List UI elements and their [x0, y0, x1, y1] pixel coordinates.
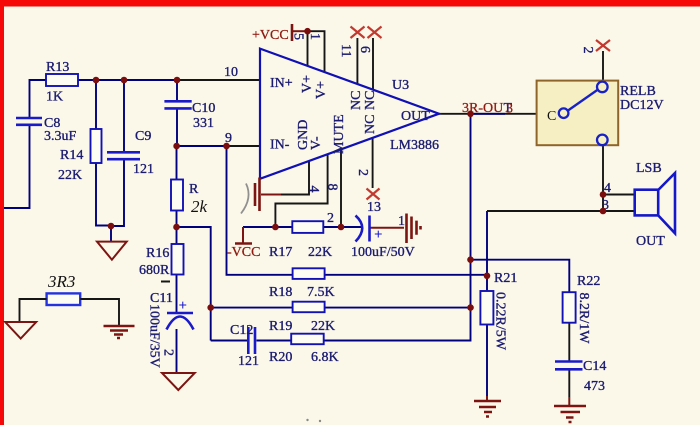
wire GND pin 4	[281, 161, 309, 195]
wire +VCC to pins	[293, 30, 308, 32]
svg-text:2: 2	[327, 211, 334, 226]
wire R16 C11 column	[176, 227, 178, 373]
wire relay top contact	[602, 51, 604, 82]
no-connect X pin 6	[368, 27, 382, 39]
resistor R13	[46, 60, 78, 105]
wire R21 column	[486, 211, 488, 396]
svg-text:R18: R18	[269, 285, 292, 300]
ground triangle C9 R14	[97, 242, 127, 260]
svg-text:2: 2	[161, 349, 176, 356]
ground triangle C11	[162, 373, 195, 390]
svg-text:NC: NC	[363, 91, 378, 110]
svg-text:0.22R/5W: 0.22R/5W	[493, 292, 508, 351]
relay RELB	[537, 81, 664, 146]
svg-text:473: 473	[584, 379, 605, 394]
svg-text:1: 1	[398, 214, 405, 229]
wire cap C13 to ground	[370, 227, 405, 229]
svg-text:U3: U3	[392, 78, 409, 93]
wire R14 column	[96, 80, 111, 226]
svg-text:+: +	[374, 227, 383, 243]
svg-text:LM3886: LM3886	[390, 138, 439, 153]
power +VCC	[252, 24, 292, 43]
wire NC pins	[357, 38, 373, 90]
svg-text:C12: C12	[230, 323, 253, 338]
no-connect X pin 11	[351, 27, 365, 39]
wire C10 column	[176, 80, 178, 146]
earth ground 3R3	[104, 326, 135, 338]
svg-text:11: 11	[338, 44, 353, 57]
wire -VCC stem	[242, 227, 244, 244]
capacitor C12	[230, 323, 259, 369]
svg-text:R20: R20	[269, 350, 292, 365]
svg-text:100uF/50V: 100uF/50V	[351, 245, 415, 260]
wire pin 9	[227, 145, 261, 147]
svg-text:22K: 22K	[58, 168, 82, 183]
svg-text:2: 2	[580, 47, 595, 54]
power -VCC	[227, 244, 260, 261]
svg-text:NC: NC	[349, 91, 364, 110]
wire IN- feedback to R18	[227, 146, 488, 275]
svg-text:V-: V-	[309, 136, 324, 150]
wire op-amp output	[439, 113, 537, 115]
wire output feedback column	[470, 114, 472, 342]
wire 3R3 left	[20, 299, 47, 322]
artifact dots	[306, 419, 308, 421]
resistor R19	[269, 302, 335, 334]
capacitor C13 100uF/50V	[351, 214, 415, 260]
wire pin 13	[372, 138, 374, 188]
svg-text:V+: V+	[300, 75, 315, 93]
svg-text:3: 3	[506, 102, 513, 117]
svg-text:R13: R13	[46, 60, 69, 75]
wire R22 branch	[471, 260, 570, 292]
svg-text:R: R	[189, 182, 199, 197]
ground sideways C13	[407, 214, 421, 244]
svg-text:C10: C10	[192, 101, 215, 116]
svg-text:10: 10	[224, 65, 238, 80]
resistor R20	[269, 334, 339, 365]
svg-text:IN+: IN+	[270, 76, 293, 91]
wire R22 to C14	[568, 323, 570, 397]
wire relay bottom contact	[602, 145, 604, 211]
svg-text:4: 4	[306, 186, 321, 193]
wire C9 column	[111, 80, 124, 242]
svg-text:R21: R21	[494, 271, 517, 286]
border left	[0, 0, 4, 425]
svg-text:R16: R16	[146, 246, 169, 261]
svg-text:+: +	[179, 298, 188, 314]
svg-text:DC12V: DC12V	[620, 98, 664, 113]
svg-text:OUT: OUT	[401, 109, 430, 124]
svg-text:NC: NC	[363, 115, 378, 134]
wire speaker pin4	[603, 194, 635, 196]
svg-text:8: 8	[325, 184, 340, 191]
speaker LSB	[635, 161, 675, 249]
ground triangle 3R3	[5, 322, 36, 339]
label 3R-OUT	[462, 101, 513, 117]
capacitor C9	[107, 129, 154, 177]
svg-text:OUT: OUT	[636, 234, 665, 249]
svg-text:100uF/35V: 100uF/35V	[147, 304, 162, 368]
resistor R18	[269, 268, 335, 300]
resistor 3R3	[47, 272, 81, 305]
border top	[0, 0, 700, 7]
svg-text:RELB: RELB	[620, 84, 656, 99]
svg-text:LSB: LSB	[636, 161, 662, 176]
svg-text:121: 121	[133, 162, 154, 177]
resistor R22	[563, 274, 601, 344]
svg-text:8.2R/1W: 8.2R/1W	[576, 293, 591, 345]
svg-text:1: 1	[307, 33, 322, 40]
svg-text:R14: R14	[60, 148, 83, 163]
no-connect X pin 13	[367, 189, 380, 200]
svg-text:6.8K: 6.8K	[311, 350, 339, 365]
svg-text:-VCC: -VCC	[227, 245, 260, 260]
wire R19 row	[211, 307, 471, 309]
svg-text:C14: C14	[583, 359, 606, 374]
svg-text:C: C	[547, 109, 556, 124]
capacitor C14	[555, 359, 606, 394]
svg-text:R19: R19	[269, 319, 292, 334]
resistor R21	[480, 271, 517, 351]
capacitor C11	[147, 282, 194, 368]
earth ground C14	[554, 406, 586, 422]
wire 3R3 right	[80, 299, 119, 326]
svg-text:680R: 680R	[139, 263, 170, 278]
svg-text:1K: 1K	[46, 90, 63, 105]
svg-text:7.5K: 7.5K	[307, 285, 335, 300]
wire R17 row	[243, 226, 361, 228]
wire R 2k column	[176, 146, 178, 227]
wire node to R19/R20 column	[177, 227, 211, 341]
wire pin 10	[177, 79, 260, 81]
wire pin at node 2	[340, 149, 342, 227]
resistor R14	[58, 129, 102, 183]
svg-text:IN-: IN-	[270, 138, 290, 153]
capacitor C10	[164, 101, 215, 131]
svg-text:22K: 22K	[308, 245, 332, 260]
wire input top rail	[4, 80, 177, 208]
capacitor C8	[16, 116, 77, 144]
svg-text:22K: 22K	[311, 319, 335, 334]
svg-text:+VCC: +VCC	[252, 28, 289, 43]
svg-text:C9: C9	[135, 129, 151, 144]
earth ground R21	[474, 401, 501, 417]
resistor R16	[139, 244, 184, 278]
wire speaker pin3	[487, 210, 635, 212]
svg-text:331: 331	[193, 116, 214, 131]
svg-text:2k: 2k	[191, 197, 208, 216]
op-amp U3	[260, 49, 439, 179]
svg-text:13: 13	[367, 200, 381, 215]
svg-text:3.3uF: 3.3uF	[44, 129, 77, 144]
ground sideways GND pin	[241, 178, 260, 214]
wire MUTE pin 8	[275, 154, 327, 227]
svg-text:MUTE: MUTE	[332, 114, 347, 154]
svg-text:6: 6	[357, 46, 372, 53]
svg-text:R22: R22	[577, 274, 600, 289]
svg-text:2: 2	[355, 169, 370, 176]
no-connect X relay pin 2	[596, 40, 610, 51]
svg-text:3R3: 3R3	[47, 272, 75, 291]
resistor R 2k	[171, 180, 208, 217]
wire IN- rail	[177, 145, 227, 147]
resistor R17	[269, 221, 332, 260]
svg-text:R17: R17	[269, 245, 292, 260]
svg-text:V+: V+	[314, 81, 329, 99]
wire R20 row	[211, 340, 471, 342]
svg-text:121: 121	[238, 354, 259, 369]
